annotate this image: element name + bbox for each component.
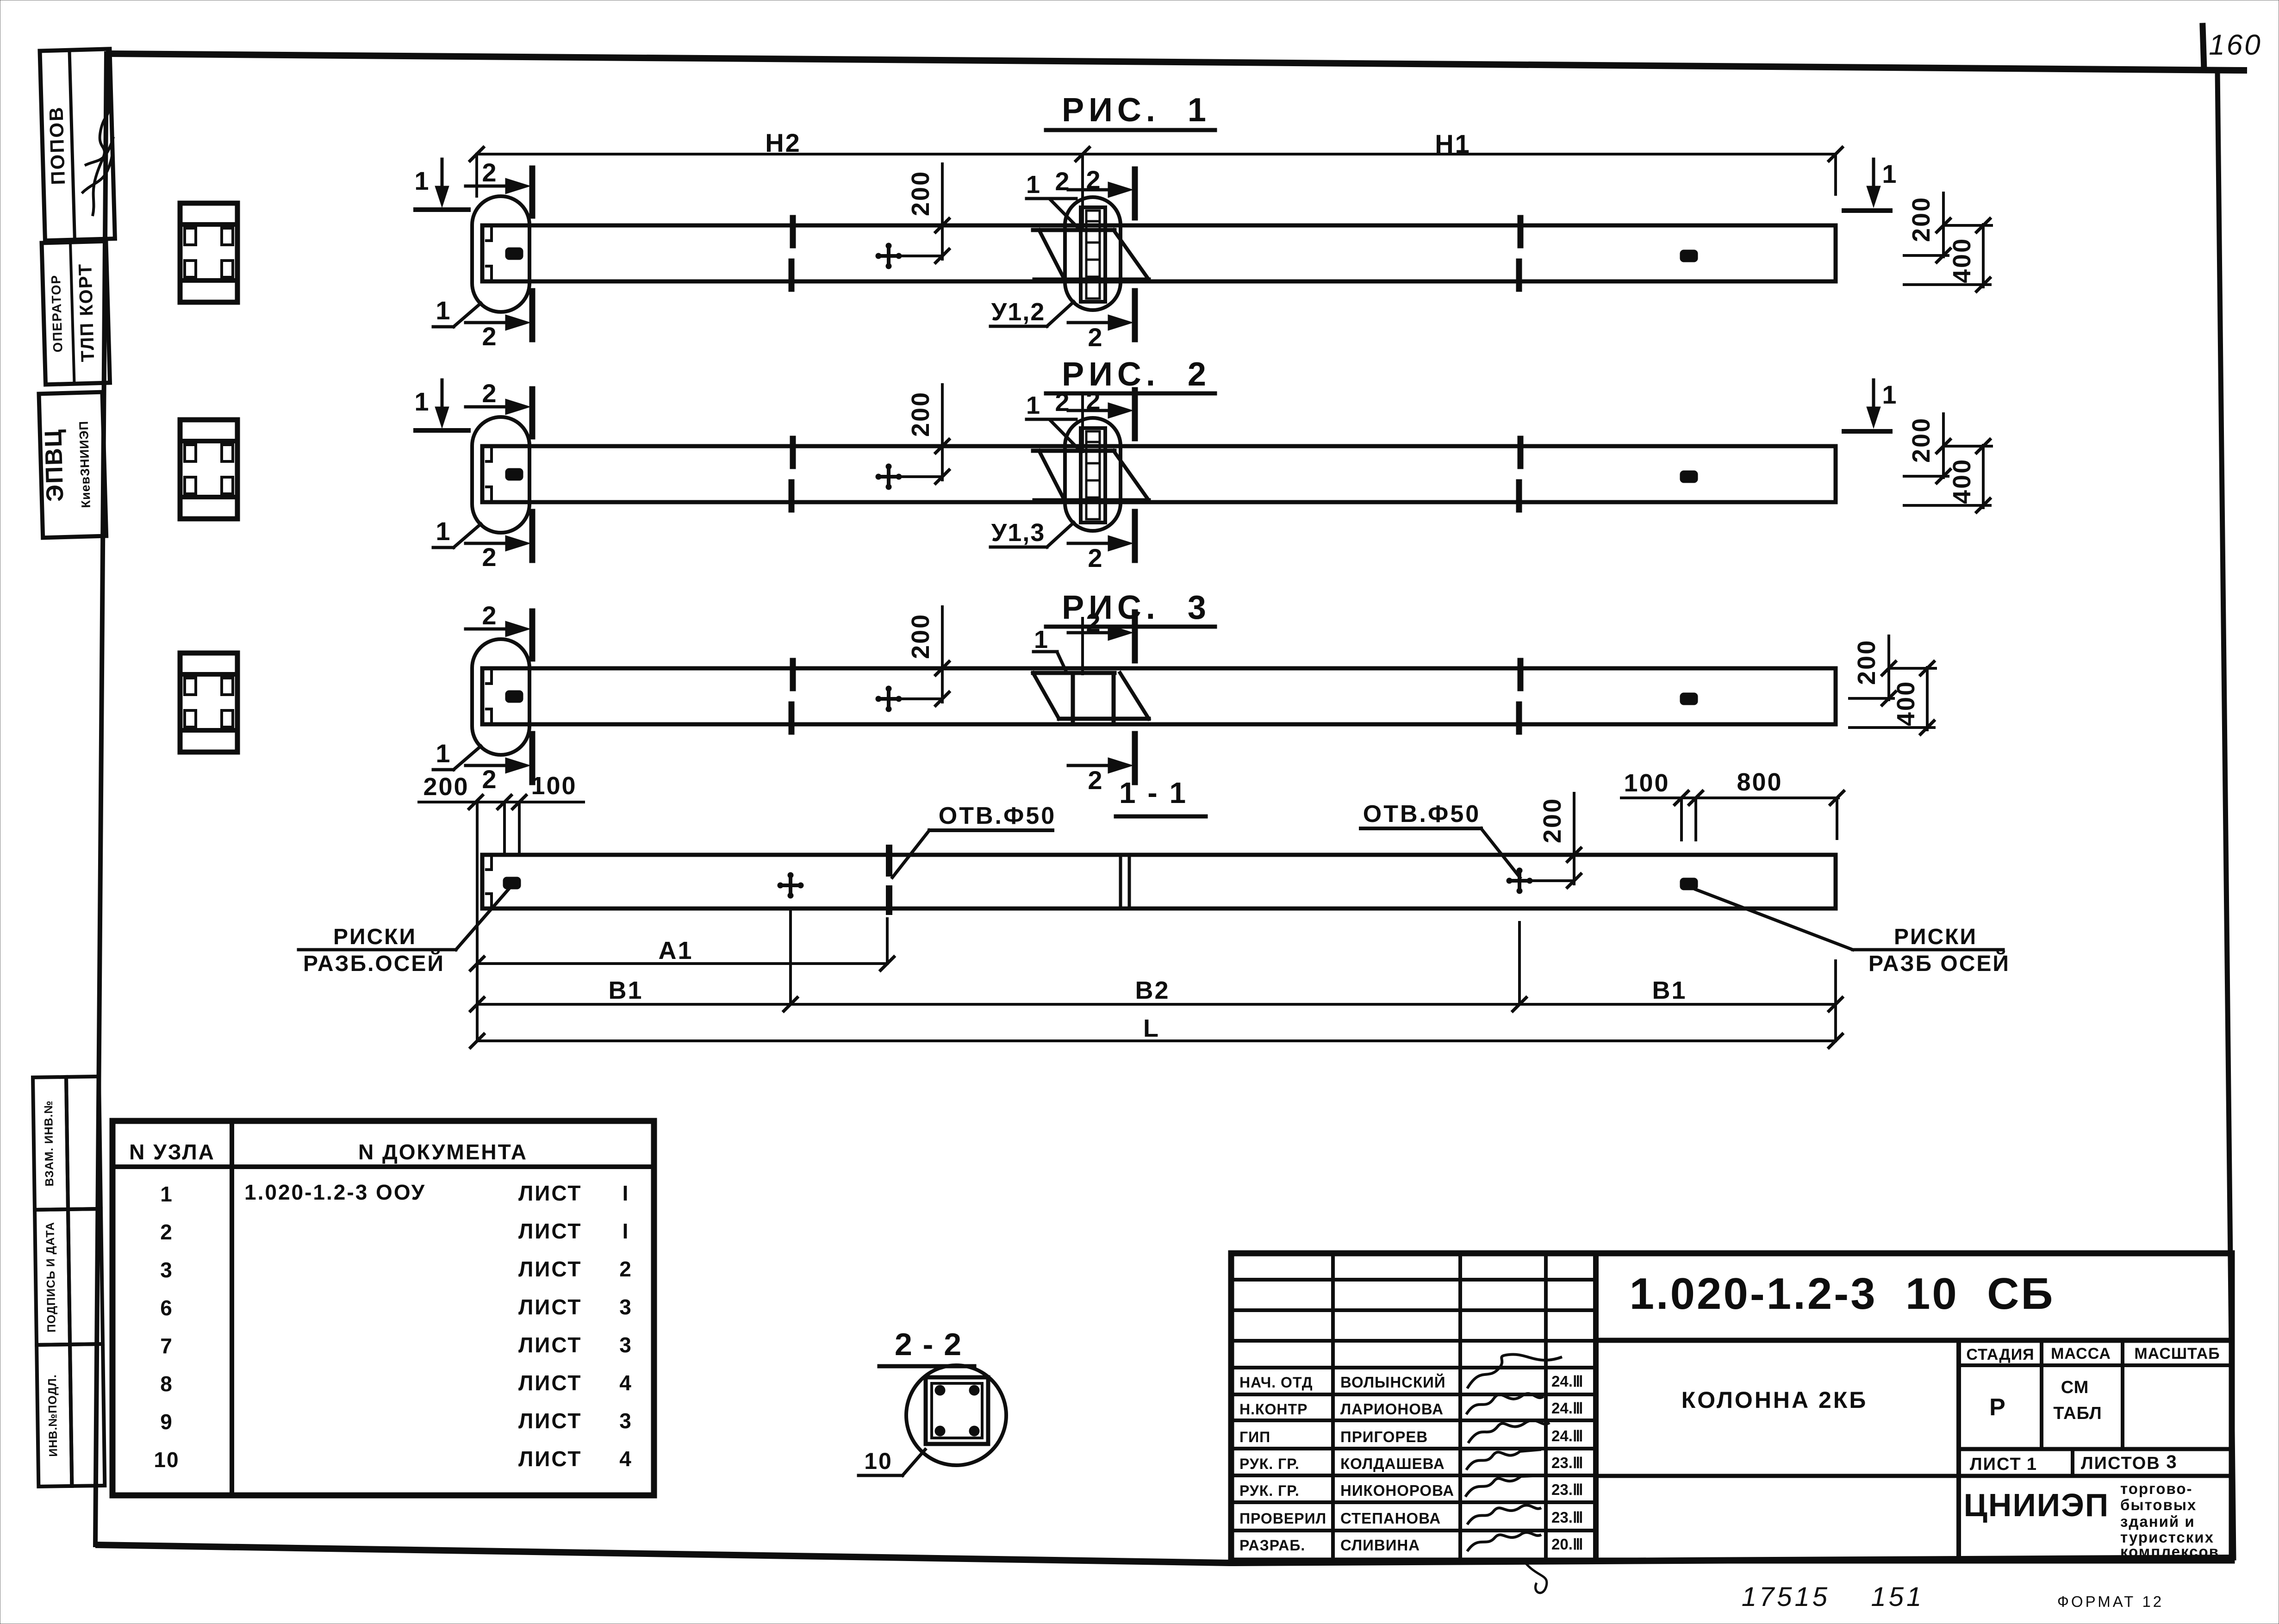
section mark 2 below joint RIS 1	[1068, 321, 1115, 324]
section mark 2 top left RIS 2	[466, 405, 512, 409]
section 2-2 circle	[906, 1365, 1006, 1465]
section mark 2 bottom left RIS 1	[466, 321, 512, 324]
axis cross RIS 2	[876, 475, 901, 479]
svg-text:В1: В1	[608, 977, 643, 1004]
svg-text:1: 1	[414, 166, 430, 195]
joint plate left diagonal RIS 1	[1039, 230, 1065, 280]
joint plate right diagonal RIS 2	[1114, 451, 1149, 500]
joint plate left diagonal RIS 2	[1039, 451, 1065, 500]
axis mark left RIS 2	[505, 468, 523, 480]
svg-text:24.Ⅲ: 24.Ⅲ	[1551, 1373, 1583, 1390]
leader cross to 200 line right 1-1	[1531, 879, 1571, 882]
svg-text:23.Ⅲ: 23.Ⅲ	[1551, 1481, 1583, 1498]
section mark 2 below joint RIS 2	[1068, 542, 1115, 545]
svg-text:комплексов: комплексов	[2120, 1543, 2219, 1560]
joint assembly on RIS 3	[1033, 608, 1149, 795]
svg-text:L: L	[1143, 1014, 1160, 1042]
hole marks OTV F50 left	[886, 848, 892, 873]
joint vertical right RIS 3	[1112, 673, 1116, 722]
detail bubble left end RIS 2	[472, 417, 529, 533]
svg-text:ФОРМАТ 12: ФОРМАТ 12	[2057, 1593, 2164, 1610]
svg-text:200: 200	[1907, 417, 1935, 463]
section 2-2 rebar dots	[935, 1385, 945, 1395]
section mark 2 top left RIS 3	[466, 628, 512, 631]
svg-text:2: 2	[482, 601, 497, 630]
svg-text:РИСКИ: РИСКИ	[1894, 925, 1977, 949]
svg-text:160: 160	[2209, 29, 2262, 61]
joint splice outer RIS 2	[1081, 428, 1105, 523]
svg-text:1: 1	[436, 296, 451, 325]
section 2-2 inner square	[932, 1383, 982, 1438]
axis mark right 1-1	[1680, 878, 1698, 890]
dim witness line 200 RIS 3	[941, 607, 944, 702]
svg-text:зданий и: зданий и	[2120, 1513, 2195, 1530]
section mark 2 bottom left RIS 2	[466, 542, 512, 545]
axis mark left RIS 1	[505, 248, 523, 260]
svg-text:1 - 1: 1 - 1	[1119, 776, 1188, 809]
svg-text:ПОПОВ: ПОПОВ	[45, 106, 69, 185]
svg-text:2: 2	[1055, 167, 1070, 196]
svg-text:23.Ⅲ: 23.Ⅲ	[1551, 1454, 1583, 1471]
svg-text:1: 1	[1026, 392, 1041, 419]
detail bubble left end RIS 3	[472, 639, 529, 755]
svg-text:ТЛП КОРТ: ТЛП КОРТ	[75, 263, 98, 362]
svg-text:1: 1	[2027, 1455, 2037, 1474]
svg-text:ЛИСТ: ЛИСТ	[518, 1371, 582, 1395]
witness vertical right end dims 1-1	[1834, 961, 1837, 1041]
axis cross left 1-1	[778, 884, 803, 887]
stamp box EPVC KievZNIIEP	[39, 392, 106, 538]
svg-text:1.020-1.2-3 ООУ: 1.020-1.2-3 ООУ	[244, 1180, 426, 1204]
dim line 400 right RIS 1	[1982, 224, 1985, 287]
witness vertical hole A1 1-1	[886, 919, 889, 964]
svg-text:ВОЛЫНСКИЙ: ВОЛЫНСКИЙ	[1340, 1373, 1446, 1391]
dim line 200-100 top left 1-1	[419, 801, 584, 803]
stadia massa masshtab header line	[1959, 1363, 2232, 1367]
svg-text:200: 200	[907, 391, 934, 437]
svg-text:ТАБЛ: ТАБЛ	[2053, 1404, 2102, 1423]
joint assembly U1,3 on RIS 2	[990, 386, 1149, 572]
svg-text:23.Ⅲ: 23.Ⅲ	[1551, 1509, 1583, 1526]
witness line beam top right RIS 1	[1945, 224, 1992, 227]
dim line 200 right RIS 2	[1942, 414, 1945, 478]
svg-text:У1,3: У1,3	[991, 519, 1046, 547]
svg-text:В2: В2	[1135, 977, 1170, 1004]
svg-text:КиевЗНИИЭП: КиевЗНИИЭП	[77, 421, 93, 508]
svg-text:МАССА: МАССА	[2051, 1345, 2111, 1363]
svg-text:3: 3	[619, 1333, 632, 1357]
svg-text:ГИП: ГИП	[1239, 1429, 1270, 1445]
dim line 200 right RIS 1	[1942, 193, 1945, 257]
joint splice inner ladder RIS 2	[1086, 431, 1100, 519]
beam end notch top RIS 1	[485, 226, 492, 241]
svg-text:1.020-1.2-3 10 СБ: 1.020-1.2-3 10 СБ	[1630, 1269, 2055, 1319]
stamp box INV N PODL spare column	[70, 1344, 105, 1486]
joint plate right diagonal RIS 1	[1114, 230, 1149, 280]
signature in POPOV box	[88, 72, 113, 216]
svg-text:1: 1	[1882, 159, 1897, 188]
stamp box VZAM INV	[33, 1077, 68, 1210]
beam outline RIS 1	[482, 225, 1836, 281]
svg-text:ИНВ.№ПОДЛ.: ИНВ.№ПОДЛ.	[46, 1374, 60, 1457]
svg-text:ОПЕРАТОР: ОПЕРАТОР	[49, 274, 65, 353]
svg-text:2 - 2: 2 - 2	[895, 1327, 962, 1362]
svg-text:В1: В1	[1652, 977, 1687, 1004]
svg-text:РУК. ГР.: РУК. ГР.	[1239, 1456, 1300, 1472]
svg-text:100: 100	[531, 772, 577, 800]
joint plate bottom edge RIS 1	[1034, 278, 1149, 282]
svg-text:H1: H1	[1435, 129, 1471, 158]
svg-text:2: 2	[1086, 386, 1101, 415]
title block outer border	[1231, 1253, 2232, 1561]
witness line mid right RIS 1	[1904, 254, 1948, 257]
nodes table column divider	[230, 1121, 234, 1495]
dim leader cross to line RIS 3	[901, 697, 942, 700]
beam end notch bottom 1-1	[485, 894, 492, 908]
section mark 2 above joint RIS 2	[1068, 409, 1115, 412]
svg-text:4: 4	[619, 1371, 632, 1395]
svg-text:9: 9	[160, 1410, 173, 1434]
svg-text:СТЕПАНОВА: СТЕПАНОВА	[1340, 1510, 1441, 1527]
svg-text:200: 200	[1853, 639, 1880, 685]
svg-text:ЛИСТ: ЛИСТ	[518, 1257, 582, 1281]
title block document number box line	[1596, 1338, 2232, 1343]
joint plate top edge RIS 2	[1033, 449, 1115, 453]
witness line mid right RIS 3	[1849, 697, 1893, 700]
joint plate right diagonal RIS 3	[1120, 673, 1149, 719]
witness line beam bottom right RIS 2	[1904, 504, 1990, 507]
svg-text:24.Ⅲ: 24.Ⅲ	[1551, 1400, 1583, 1417]
witness verticals top left 1-1	[503, 802, 506, 854]
svg-text:400: 400	[1948, 458, 1976, 504]
svg-text:1: 1	[436, 516, 451, 546]
svg-text:800: 800	[1737, 768, 1782, 796]
svg-text:17515 151: 17515 151	[1742, 1582, 1924, 1612]
section mark 1 top left RIS 2	[441, 380, 444, 410]
svg-text:2: 2	[1088, 323, 1103, 352]
beam end notch top 1-1	[485, 856, 492, 870]
svg-text:2: 2	[482, 322, 497, 351]
dim line H1	[1083, 153, 1836, 156]
svg-text:2: 2	[1055, 387, 1070, 417]
title block vertical right of name box	[1956, 1340, 1961, 1557]
svg-text:2: 2	[1086, 608, 1101, 637]
svg-text:2: 2	[1086, 165, 1101, 194]
svg-text:2: 2	[160, 1220, 173, 1244]
detail bubble left end RIS 1	[472, 196, 529, 312]
svg-text:3: 3	[160, 1258, 173, 1282]
svg-text:200: 200	[1538, 797, 1566, 843]
match ticks x1713 RIS 3	[790, 661, 796, 688]
section mark 2 above joint RIS 1	[1068, 188, 1115, 192]
stamp box PODPIS spare column	[68, 1209, 103, 1344]
nodes table outer border	[112, 1121, 654, 1495]
svg-text:8: 8	[160, 1372, 173, 1396]
title block divider main vertical	[1593, 1253, 1599, 1557]
witness vertical B1-B2 1-1	[789, 909, 792, 1004]
list row bottom line	[1959, 1474, 2232, 1478]
list row divider	[2071, 1449, 2074, 1476]
dim line B1 B2 B1	[477, 1003, 1836, 1006]
svg-text:ЛИСТ: ЛИСТ	[518, 1295, 582, 1319]
beam end notch bottom RIS 2	[485, 487, 492, 501]
svg-text:ЛИСТ: ЛИСТ	[518, 1219, 582, 1243]
dim extension right H1	[1834, 154, 1837, 194]
dim line 400 right RIS 2	[1982, 445, 1985, 508]
section mark 1 right end RIS 1	[1872, 159, 1875, 189]
frame right border	[2217, 70, 2234, 1558]
column section symbol 2	[180, 420, 237, 519]
svg-text:ЛИСТ: ЛИСТ	[1970, 1455, 2022, 1474]
joint detail bubble RIS 1	[1065, 197, 1121, 310]
section mark 2 below joint RIS 3	[1068, 764, 1115, 767]
svg-text:ПРИГОРЕВ: ПРИГОРЕВ	[1340, 1428, 1428, 1445]
svg-text:ПОДПИСЬ И ДАТА: ПОДПИСЬ И ДАТА	[44, 1222, 58, 1332]
svg-text:H2: H2	[765, 128, 801, 157]
svg-text:ЛИСТ: ЛИСТ	[518, 1409, 582, 1433]
match ticks x1713 RIS 1	[790, 218, 796, 245]
svg-text:1: 1	[1882, 380, 1897, 409]
svg-text:РИС. 1: РИС. 1	[1062, 92, 1211, 129]
match ticks x3285 RIS 1	[1518, 218, 1524, 245]
svg-text:2: 2	[1088, 765, 1103, 795]
svg-text:A1: A1	[658, 937, 693, 964]
svg-text:1: 1	[1026, 171, 1041, 199]
dim witness 200 right middle 1-1	[1573, 793, 1575, 884]
witness verticals top right 1-1	[1680, 798, 1683, 840]
dim line A1	[477, 962, 887, 965]
svg-text:2: 2	[619, 1257, 632, 1281]
witness line beam top right RIS 2	[1945, 445, 1992, 448]
svg-text:ОТВ.Ф50: ОТВ.Ф50	[1363, 801, 1481, 828]
svg-text:ЛАРИОНОВА: ЛАРИОНОВА	[1340, 1400, 1444, 1418]
svg-text:2: 2	[482, 765, 497, 794]
svg-text:НАЧ. ОТД: НАЧ. ОТД	[1239, 1374, 1313, 1391]
stadia column dividers	[2040, 1340, 2043, 1449]
svg-text:1: 1	[414, 387, 430, 416]
svg-text:Р: Р	[1989, 1394, 2006, 1421]
joint plate top edge RIS 3	[1033, 671, 1115, 675]
beam outline section 1-1	[482, 855, 1836, 908]
witness line mid right RIS 2	[1904, 475, 1948, 478]
svg-text:I: I	[623, 1219, 629, 1243]
joint vertical left RIS 3	[1071, 673, 1075, 722]
frame top border	[109, 54, 2244, 70]
joint axis vertical RIS 2	[1081, 396, 1084, 452]
title block left column dividers	[1331, 1253, 1335, 1557]
stamp box POPOV	[40, 49, 116, 241]
axis mark right RIS 3	[1680, 693, 1698, 705]
svg-text:Н.КОНТР: Н.КОНТР	[1239, 1401, 1308, 1418]
svg-text:ВЗАМ. ИНВ.№: ВЗАМ. ИНВ.№	[42, 1100, 56, 1186]
svg-text:1: 1	[1034, 626, 1049, 653]
svg-text:торгово-: торгово-	[2120, 1480, 2193, 1497]
beam outline RIS 3	[482, 668, 1836, 724]
nodes table header line	[112, 1164, 654, 1169]
joint axis vertical RIS 3	[1081, 618, 1084, 674]
signature tail below block	[1523, 1560, 1547, 1593]
svg-text:СМ: СМ	[2061, 1378, 2089, 1397]
svg-text:200: 200	[907, 170, 934, 216]
svg-text:N УЗЛА: N УЗЛА	[129, 1140, 215, 1164]
svg-text:СТАДИЯ: СТАДИЯ	[1966, 1346, 2034, 1363]
svg-text:3: 3	[2166, 1452, 2177, 1472]
dim leader cross to line RIS 1	[901, 255, 942, 257]
dim line 100-800 top right 1-1	[1621, 796, 1838, 799]
dim extension at junction H2/H1	[1081, 154, 1084, 228]
joint plate left diagonal RIS 3	[1033, 673, 1059, 719]
svg-text:ЛИСТ: ЛИСТ	[518, 1181, 582, 1205]
dim extension left H2	[475, 154, 478, 196]
title block name box bottom	[1596, 1474, 1959, 1478]
svg-text:ПРОВЕРИЛ: ПРОВЕРИЛ	[1239, 1510, 1326, 1527]
svg-text:24.Ⅲ: 24.Ⅲ	[1551, 1427, 1583, 1444]
section mark 2 top left RIS 1	[466, 185, 512, 188]
match ticks x3285 RIS 3	[1518, 661, 1524, 688]
dim leader cross to line RIS 2	[901, 475, 942, 478]
svg-text:СЛИВИНА: СЛИВИНА	[1340, 1537, 1420, 1554]
witness line beam top right RIS 3	[1890, 667, 1936, 670]
column section symbol 3	[180, 653, 237, 752]
axis mark left 1-1	[503, 877, 521, 889]
svg-text:N ДОКУМЕНТА: N ДОКУМЕНТА	[358, 1140, 528, 1164]
match ticks x3285 RIS 2	[1518, 439, 1524, 466]
svg-text:1: 1	[160, 1182, 173, 1206]
svg-text:200: 200	[907, 613, 934, 659]
beam end notch top RIS 2	[485, 447, 492, 461]
witness vertical hole right B 1-1	[1518, 922, 1521, 1004]
svg-text:7: 7	[160, 1334, 173, 1358]
beam end notch top RIS 3	[485, 669, 492, 684]
svg-text:ЛИСТОВ: ЛИСТОВ	[2081, 1454, 2161, 1473]
svg-text:2: 2	[482, 379, 497, 408]
axis cross right 1-1	[1507, 879, 1532, 883]
joint splice inner ladder RIS 1	[1086, 211, 1100, 299]
svg-text:РАЗБ ОСЕЙ: РАЗБ ОСЕЙ	[1868, 951, 2010, 976]
joint plate bottom edge RIS 3	[1059, 717, 1149, 721]
svg-text:100: 100	[1624, 769, 1669, 797]
svg-text:ЭПВЦ: ЭПВЦ	[40, 428, 68, 502]
stadia row bottom line	[1959, 1447, 2232, 1451]
witness line beam bottom right RIS 1	[1904, 283, 1990, 286]
dim line 400 right RIS 3	[1926, 667, 1929, 730]
svg-text:бытовых: бытовых	[2120, 1496, 2197, 1513]
svg-text:КОЛОННА 2КБ: КОЛОННА 2КБ	[1681, 1387, 1868, 1413]
svg-text:РИСКИ: РИСКИ	[333, 925, 417, 949]
joint plate top edge RIS 1	[1033, 228, 1115, 232]
witness vertical left end dims 1-1	[476, 802, 479, 1041]
svg-text:РАЗБ.ОСЕЙ: РАЗБ.ОСЕЙ	[303, 951, 445, 976]
axis mark right RIS 1	[1680, 250, 1698, 262]
svg-text:200: 200	[1907, 196, 1935, 242]
svg-text:400: 400	[1892, 680, 1920, 726]
svg-text:4: 4	[619, 1447, 632, 1471]
svg-text:ЛИСТ: ЛИСТ	[518, 1447, 582, 1471]
stamp box VZAM INV spare column	[66, 1076, 101, 1209]
dim line 200 right RIS 3	[1887, 636, 1890, 700]
joint plate bottom edge RIS 2	[1034, 498, 1149, 503]
dim witness line 200 RIS 1	[941, 164, 944, 259]
svg-text:3: 3	[619, 1409, 632, 1433]
svg-text:КОЛДАШЕВА: КОЛДАШЕВА	[1340, 1455, 1445, 1472]
svg-text:РУК. ГР.: РУК. ГР.	[1239, 1482, 1300, 1499]
svg-text:1: 1	[436, 739, 451, 768]
stamp box OPERATOR TLP KORT	[42, 241, 110, 385]
title block left row lines	[1231, 1278, 1596, 1282]
axis cross RIS 1	[876, 254, 901, 258]
svg-text:10: 10	[154, 1448, 179, 1472]
svg-text:I: I	[623, 1181, 629, 1205]
section mark 1 right end RIS 2	[1872, 380, 1875, 410]
witness line beam bottom right RIS 3	[1849, 726, 1934, 729]
page number tick	[2203, 26, 2204, 69]
match ticks x1713 RIS 2	[790, 439, 796, 466]
joint splice outer RIS 1	[1081, 207, 1105, 302]
frame bottom border	[95, 1545, 2234, 1563]
axis cross RIS 3	[876, 697, 901, 701]
svg-text:2: 2	[1088, 543, 1103, 572]
svg-text:РАЗРАБ.: РАЗРАБ.	[1239, 1537, 1305, 1554]
section mark 2 above joint RIS 3	[1068, 631, 1115, 635]
stamp box INV N PODL	[37, 1344, 72, 1487]
svg-text:2: 2	[482, 542, 497, 572]
svg-text:НИКОНОРОВА: НИКОНОРОВА	[1340, 1482, 1454, 1499]
svg-text:У1,2: У1,2	[991, 298, 1046, 326]
joint seam lines 1-1	[1119, 855, 1122, 908]
svg-text:20.Ⅲ: 20.Ⅲ	[1551, 1536, 1583, 1553]
svg-text:10: 10	[864, 1448, 893, 1474]
svg-text:ОТВ.Ф50: ОТВ.Ф50	[939, 803, 1056, 829]
svg-text:МАСШТАБ: МАСШТАБ	[2134, 1345, 2220, 1363]
svg-text:ЦНИИЭП: ЦНИИЭП	[1964, 1487, 2109, 1523]
beam end notch bottom RIS 3	[485, 709, 492, 723]
axis mark left RIS 3	[505, 691, 523, 703]
svg-text:6: 6	[160, 1296, 173, 1320]
frame left border	[95, 54, 106, 1545]
svg-text:3: 3	[619, 1295, 632, 1319]
joint assembly U1,2 on RIS 1	[990, 165, 1149, 352]
svg-text:2: 2	[482, 158, 497, 187]
dim line H2	[477, 153, 1083, 156]
section mark 2 bottom left RIS 3	[466, 764, 512, 767]
axis mark right RIS 2	[1680, 471, 1698, 483]
signature squiggles	[1467, 1354, 1562, 1388]
section mark 1 top left RIS 1	[441, 159, 444, 189]
beam end notch bottom RIS 1	[485, 266, 492, 280]
section 2-2 outer square	[926, 1377, 988, 1444]
joint detail bubble RIS 2	[1065, 418, 1121, 531]
dim line L	[477, 1039, 1836, 1042]
beam outline RIS 2	[482, 446, 1836, 502]
stamp box PODPIS I DATA	[35, 1209, 70, 1345]
dim witness line 200 RIS 2	[941, 385, 944, 480]
svg-text:400: 400	[1948, 237, 1976, 283]
svg-text:ЛИСТ: ЛИСТ	[518, 1333, 582, 1357]
column section symbol 1	[180, 203, 237, 302]
svg-text:200: 200	[423, 773, 469, 801]
